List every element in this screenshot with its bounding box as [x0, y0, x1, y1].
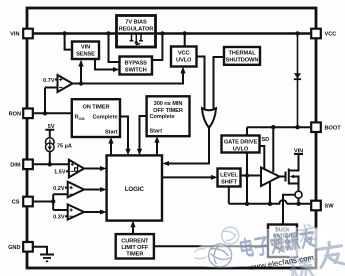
svg-text:CURRENT: CURRENT: [121, 239, 149, 245]
svg-text:0.7V: 0.7V: [43, 78, 55, 84]
svg-text:GND: GND: [8, 245, 20, 251]
svg-text:VIN: VIN: [294, 149, 303, 155]
svg-text:VIN: VIN: [81, 45, 90, 51]
svg-text:75 µA: 75 µA: [57, 144, 72, 150]
svg-text:7V BIAS: 7V BIAS: [125, 20, 147, 26]
svg-text:Start: Start: [105, 130, 118, 136]
svg-text:VCC: VCC: [178, 51, 190, 57]
svg-text:SHUTDOWN: SHUTDOWN: [226, 58, 259, 64]
svg-text:GATE DRIVE: GATE DRIVE: [224, 140, 258, 146]
svg-text:LOGIC: LOGIC: [125, 186, 145, 193]
svg-text:UVLO: UVLO: [176, 58, 192, 64]
svg-text:SD: SD: [262, 137, 270, 143]
svg-text:TIMER: TIMER: [126, 252, 143, 258]
svg-text:RON: RON: [9, 112, 21, 118]
svg-text:Complete: Complete: [92, 115, 117, 121]
svg-text:SENSE: SENSE: [76, 52, 95, 58]
svg-text:LIMIT OFF: LIMIT OFF: [121, 245, 149, 251]
svg-text:1.5V: 1.5V: [54, 169, 66, 175]
svg-text:BYPASS: BYPASS: [125, 61, 148, 67]
svg-text:0.3V: 0.3V: [53, 214, 65, 220]
svg-text:ON: ON: [79, 116, 85, 121]
svg-text:REGULATOR: REGULATOR: [119, 27, 154, 33]
svg-text:DIM: DIM: [10, 163, 21, 169]
svg-text:5V: 5V: [48, 124, 55, 130]
svg-text:300 ns MIN: 300 ns MIN: [154, 101, 183, 107]
svg-text:Complete: Complete: [150, 114, 175, 120]
svg-text:ON TIMER: ON TIMER: [82, 105, 109, 111]
svg-text:Start: Start: [150, 129, 163, 135]
svg-text:0.2V: 0.2V: [53, 186, 65, 192]
svg-text:SW: SW: [325, 204, 335, 210]
svg-text:SWITCH: SWITCH: [125, 68, 147, 74]
svg-text:VIN: VIN: [10, 32, 19, 38]
svg-text:UVLO: UVLO: [233, 147, 249, 153]
svg-text:THERMAL: THERMAL: [228, 51, 256, 57]
svg-text:CS: CS: [12, 200, 20, 206]
svg-text:BOOT: BOOT: [325, 125, 342, 131]
svg-text:SHIFT: SHIFT: [221, 180, 238, 186]
svg-text:LEVEL: LEVEL: [220, 173, 238, 179]
svg-text:VCC: VCC: [325, 32, 337, 38]
